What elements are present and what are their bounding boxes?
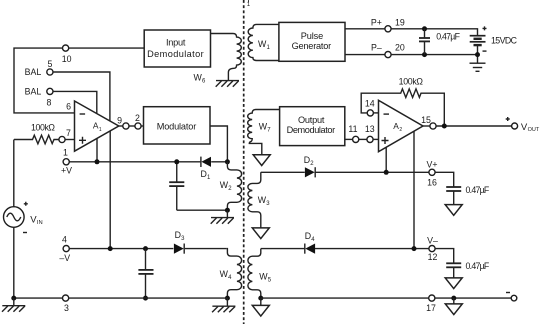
capacitor C1 (input side) <box>176 162 178 182</box>
terminal 14 <box>367 110 373 116</box>
ground V- cap (triangle) <box>445 278 462 289</box>
svg-text:0.47µF: 0.47µF <box>466 261 490 271</box>
svg-text:V–: V– <box>427 235 438 245</box>
A1 -V supply stub <box>109 131 111 249</box>
svg-text:1: 1 <box>99 127 102 133</box>
svg-text:6: 6 <box>66 102 71 112</box>
P- row <box>345 54 385 56</box>
ground W3 (triangle) <box>252 228 269 239</box>
svg-text:2: 2 <box>399 127 402 133</box>
Pulse Generator block <box>279 22 345 61</box>
diode D3 <box>174 244 184 254</box>
ground W4 (hatched) <box>226 298 228 306</box>
svg-text:100kΩ: 100kΩ <box>399 77 424 87</box>
V- row <box>261 248 305 250</box>
wire BAL8 stub <box>53 91 97 113</box>
svg-text:14: 14 <box>365 99 375 109</box>
junction A1 -V <box>108 246 113 251</box>
output - terminal <box>511 295 517 301</box>
A2 V+ supply stub <box>385 147 387 172</box>
ground input common (hatched) <box>13 298 15 306</box>
BAL terminal 8 <box>47 88 53 94</box>
VOUT terminal <box>512 123 518 129</box>
diode D1 <box>201 157 211 167</box>
svg-text:OUT: OUT <box>528 127 540 133</box>
svg-text:+V: +V <box>61 165 72 175</box>
svg-text:0.47µF: 0.47µF <box>436 32 460 42</box>
junction D1/W2/modulator <box>225 159 230 164</box>
winding W5 <box>248 249 261 299</box>
svg-text:Generator: Generator <box>292 41 332 51</box>
terminal 7 <box>59 136 65 142</box>
-V row <box>69 248 173 250</box>
terminal 10 <box>63 45 69 51</box>
A2 V- supply stub <box>413 131 415 248</box>
svg-text:12: 12 <box>428 252 438 262</box>
winding W3 <box>248 172 261 228</box>
svg-text:2: 2 <box>135 113 140 123</box>
isolation barrier dashed line <box>243 0 245 324</box>
battery 15VDC <box>483 26 487 30</box>
ground V+ cap (triangle) <box>445 205 462 216</box>
svg-text:–V: –V <box>59 253 70 263</box>
bottom left common row <box>14 297 63 299</box>
svg-text:BAL: BAL <box>25 87 42 97</box>
wire BAL5 stub <box>53 72 110 121</box>
svg-text:Demodulator: Demodulator <box>147 49 204 59</box>
svg-text:1: 1 <box>63 148 68 158</box>
capacitor C2 (supply side) <box>143 246 148 251</box>
svg-text:IN: IN <box>37 220 43 226</box>
ground W6 (hatched) <box>216 81 239 87</box>
terminal 4 <box>63 246 69 252</box>
capacitor 0.47uF V+ <box>446 186 461 188</box>
ground W7 (triangle) <box>253 155 270 166</box>
svg-text:100kΩ: 100kΩ <box>31 122 55 132</box>
diode D2 <box>305 167 315 177</box>
svg-text:10: 10 <box>62 54 72 64</box>
svg-text:V+: V+ <box>426 159 437 169</box>
svg-text:3: 3 <box>64 303 69 313</box>
svg-text:D: D <box>201 169 207 179</box>
capacitor 0.47uF pulse <box>424 29 426 38</box>
wire FB top row <box>69 47 145 49</box>
BAL terminal 5 <box>47 69 53 75</box>
svg-text:P–: P– <box>371 43 382 53</box>
svg-text:16: 16 <box>427 178 437 188</box>
svg-text:17: 17 <box>426 303 436 313</box>
terminal V+ 16 <box>429 169 435 175</box>
Modulator block <box>144 107 211 144</box>
svg-text:P+: P+ <box>371 17 382 27</box>
svg-text:Output: Output <box>298 115 325 125</box>
wire FB to inverting input <box>14 48 75 113</box>
svg-text:D: D <box>305 231 311 241</box>
winding W6 <box>211 34 242 81</box>
svg-text:15VDC: 15VDC <box>491 35 518 45</box>
winding W1 <box>248 24 279 60</box>
winding W7 <box>248 110 280 155</box>
svg-text:13: 13 <box>365 124 375 134</box>
svg-text:8: 8 <box>47 98 52 108</box>
op-amp A1 <box>75 101 119 151</box>
P+ row <box>345 28 385 30</box>
node 11 / 13 <box>345 138 353 140</box>
Output Demodulator block <box>280 107 345 146</box>
ground battery (3-bar) <box>470 63 486 71</box>
svg-text:A: A <box>393 121 399 131</box>
source VIN <box>4 207 25 228</box>
svg-text:0.47µF: 0.47µF <box>466 185 490 195</box>
winding W2 <box>227 162 241 210</box>
svg-text:Input: Input <box>166 38 186 48</box>
wire W2 bottom loop <box>177 209 228 211</box>
D2 row / V+ rail <box>261 171 305 173</box>
svg-text:Modulator: Modulator <box>157 121 197 131</box>
svg-text:D: D <box>175 230 181 240</box>
svg-text:5: 5 <box>48 59 53 69</box>
winding W4 <box>227 249 242 299</box>
ground W2 (hatched) <box>226 210 228 217</box>
svg-text:7: 7 <box>66 128 71 138</box>
terminal 1 <box>63 159 69 165</box>
terminal V- 12 <box>429 246 435 252</box>
wire modulator output <box>210 126 227 162</box>
svg-text:D: D <box>304 155 310 165</box>
op-amp A2 <box>379 100 424 151</box>
ground W5 (triangle) <box>260 298 262 305</box>
Input Demodulator block <box>144 30 210 67</box>
+V row wire <box>69 161 200 163</box>
svg-text:BAL: BAL <box>25 67 42 77</box>
transformer T1 label <box>246 0 252 8</box>
junction A1 +V <box>95 159 100 164</box>
svg-text:4: 4 <box>62 235 67 245</box>
svg-text:11: 11 <box>348 124 357 134</box>
diode D4 <box>305 244 315 254</box>
wire to + input <box>65 139 74 141</box>
svg-text:20: 20 <box>395 43 405 53</box>
svg-text:15: 15 <box>421 115 431 125</box>
svg-text:Demodulator: Demodulator <box>287 125 336 135</box>
capacitor 0.47uF V- <box>446 262 461 264</box>
svg-text:9: 9 <box>117 115 122 125</box>
ground out common (triangle) <box>453 298 455 304</box>
svg-text:Pulse: Pulse <box>301 31 324 41</box>
bottom right common row <box>261 297 429 299</box>
A1 +V supply stub <box>96 139 98 162</box>
svg-text:19: 19 <box>395 17 405 27</box>
